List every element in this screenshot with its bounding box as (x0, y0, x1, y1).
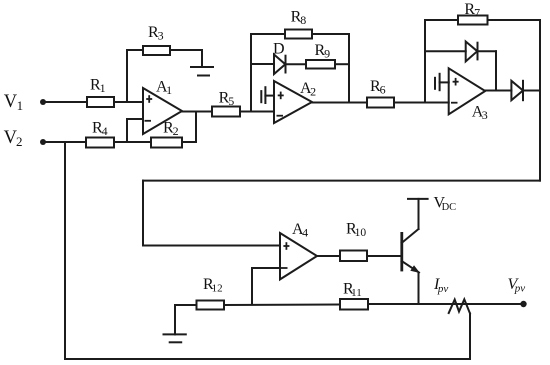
svg-text:R5: R5 (219, 90, 235, 109)
svg-text:VDC: VDC (434, 195, 457, 214)
svg-text:R12: R12 (203, 276, 223, 295)
svg-text:R1: R1 (90, 76, 106, 95)
svg-text:Vpv: Vpv (508, 276, 526, 295)
svg-text:R3: R3 (148, 24, 164, 43)
svg-text:R6: R6 (370, 78, 386, 97)
svg-text:R9: R9 (315, 42, 331, 61)
svg-text:R10: R10 (346, 221, 366, 240)
svg-text:R8: R8 (291, 8, 307, 27)
svg-text:R11: R11 (343, 281, 362, 300)
svg-text:R4: R4 (92, 119, 108, 138)
svg-text:R7: R7 (464, 1, 480, 20)
svg-text:A2: A2 (300, 80, 316, 99)
svg-text:A1: A1 (156, 78, 172, 97)
svg-text:V1: V1 (4, 92, 23, 113)
svg-text:V2: V2 (4, 128, 23, 149)
svg-text:A3: A3 (472, 104, 488, 123)
svg-text:Ipv: Ipv (433, 276, 448, 295)
svg-text:D: D (273, 41, 285, 58)
svg-text:R2: R2 (163, 119, 179, 138)
svg-text:A4: A4 (292, 221, 308, 240)
